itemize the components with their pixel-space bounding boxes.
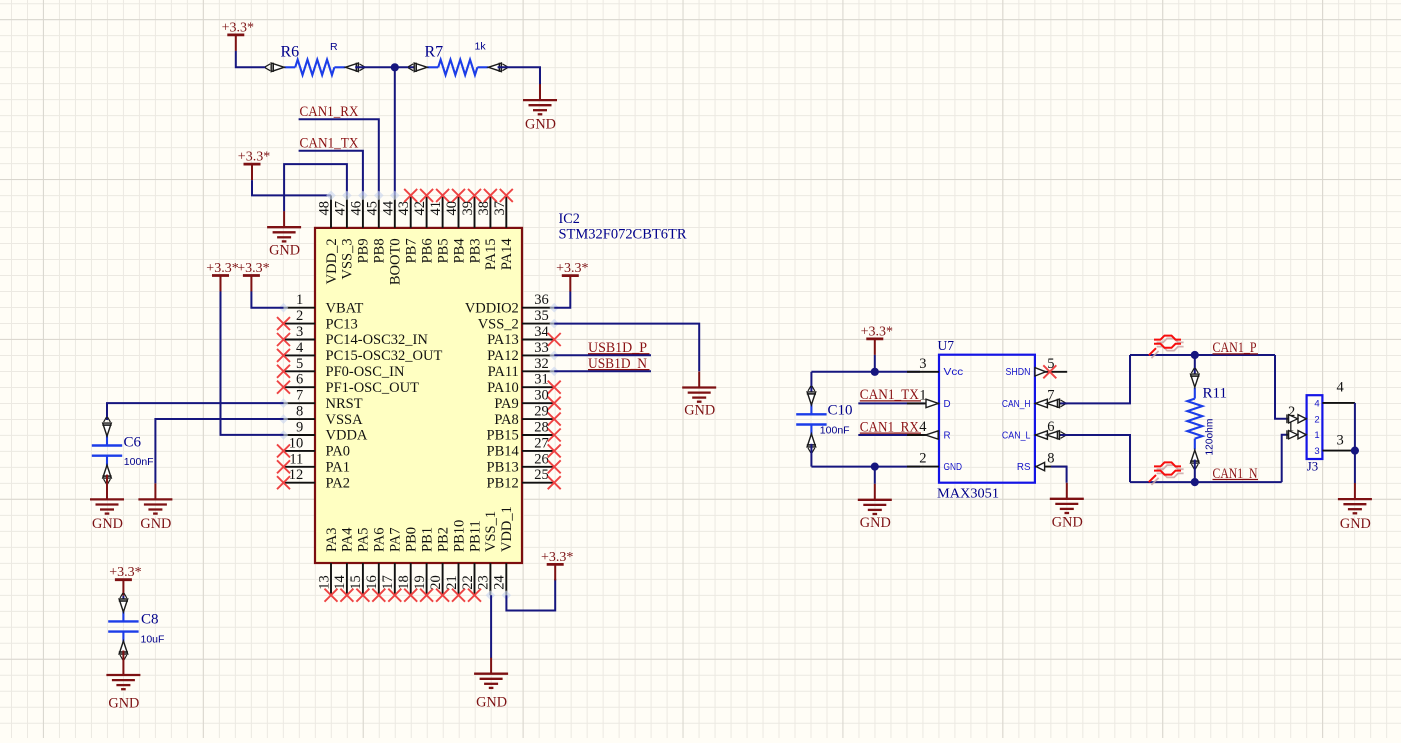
svg-text:PA2: PA2 bbox=[326, 475, 350, 491]
wire CAN1_P rail bbox=[1130, 354, 1275, 356]
IC2 pin 48 VDD_2 bbox=[317, 191, 340, 285]
wire CAN1_RX to pin 45 bbox=[299, 119, 379, 196]
junction CAN1_P at R11 bbox=[1191, 351, 1199, 359]
svg-text:25: 25 bbox=[534, 467, 549, 483]
U7 pin 1 input triangle bbox=[926, 399, 938, 407]
svg-text:SHDN: SHDN bbox=[1006, 367, 1031, 378]
capacitor C8 bbox=[108, 593, 138, 660]
svg-text:11: 11 bbox=[289, 451, 303, 467]
U7 pin 6 CAN_L triangle bbox=[1036, 431, 1048, 439]
svg-text:42: 42 bbox=[412, 201, 428, 216]
IC2 pin 28 PB15 bbox=[487, 420, 561, 444]
IC2 pin 25 PB12 bbox=[487, 467, 561, 491]
wire pin 8 VSSA to GND bbox=[155, 419, 283, 483]
svg-text:+3.3*: +3.3* bbox=[541, 550, 573, 565]
IC2 pin 41 PB5 bbox=[428, 189, 451, 264]
IC2 pin 33 PA12 bbox=[487, 340, 559, 364]
svg-text:21: 21 bbox=[444, 575, 460, 590]
wire USB1D_N stub pin 32 bbox=[554, 370, 651, 372]
svg-text:GND: GND bbox=[684, 403, 715, 419]
svg-text:VSS_3: VSS_3 bbox=[340, 238, 356, 279]
junction J3 pin3 node bbox=[1351, 447, 1359, 455]
svg-text:+3.3*: +3.3* bbox=[222, 20, 254, 35]
svg-text:VDDIO2: VDDIO2 bbox=[465, 300, 519, 316]
svg-text:43: 43 bbox=[396, 201, 412, 216]
svg-text:PA14: PA14 bbox=[499, 238, 515, 270]
svg-text:R: R bbox=[330, 41, 338, 53]
IC2 pin 45 PB8 bbox=[364, 191, 387, 264]
svg-text:VDD_2: VDD_2 bbox=[324, 238, 340, 284]
svg-text:120ohm: 120ohm bbox=[1205, 419, 1216, 456]
wire pin 7 NRST to C6 bbox=[107, 403, 284, 420]
svg-text:6: 6 bbox=[296, 372, 303, 388]
IC2 pin 29 PA8 bbox=[494, 404, 560, 428]
IC2 pin 39 PB3 bbox=[460, 189, 483, 264]
svg-text:PB11: PB11 bbox=[467, 520, 483, 552]
svg-text:PB14: PB14 bbox=[487, 444, 520, 460]
svg-text:32: 32 bbox=[534, 356, 549, 372]
svg-text:PB3: PB3 bbox=[467, 238, 483, 263]
IC2 pin 27 PB14 bbox=[487, 435, 561, 459]
U7 pin 5 SHDN triangle and no-connect bbox=[1035, 368, 1046, 376]
wire C8 to GND bbox=[122, 651, 124, 660]
wire pin 23 VSS_1 to GND bbox=[490, 595, 492, 658]
svg-text:7: 7 bbox=[296, 388, 303, 404]
svg-text:PB12: PB12 bbox=[487, 475, 519, 491]
svg-text:R: R bbox=[944, 430, 951, 441]
J3 pin 4 bbox=[1314, 380, 1355, 410]
svg-text:PA4: PA4 bbox=[340, 527, 356, 552]
svg-text:9: 9 bbox=[296, 420, 303, 436]
wire +3.3V to pin 48 bbox=[252, 180, 331, 195]
U7 pin 8 RS triangle bbox=[1036, 462, 1045, 470]
wire node to R7 bbox=[395, 66, 421, 68]
svg-text:PA1: PA1 bbox=[326, 460, 350, 476]
ground below C8 bbox=[106, 659, 140, 712]
svg-text:PA13: PA13 bbox=[487, 332, 519, 348]
IC2 pin 3 PC14-OSC32_IN bbox=[277, 324, 428, 348]
IC2 pin 6 PF1-OSC_OUT bbox=[277, 372, 419, 396]
IC2 pin 30 PA9 bbox=[494, 388, 560, 412]
wire +3.3V to C8 bbox=[122, 596, 124, 603]
svg-text:VSS_2: VSS_2 bbox=[478, 316, 519, 332]
svg-text:PA3: PA3 bbox=[324, 528, 340, 552]
IC2 pin 14 PA4 bbox=[332, 527, 356, 602]
svg-text:PA12: PA12 bbox=[487, 348, 519, 364]
differential pair marker CAN1_P bbox=[1149, 336, 1184, 358]
svg-text:40: 40 bbox=[444, 201, 460, 216]
svg-text:PB4: PB4 bbox=[451, 238, 467, 264]
svg-text:PA6: PA6 bbox=[372, 528, 388, 552]
svg-text:PA10: PA10 bbox=[487, 380, 519, 396]
svg-text:MAX3051: MAX3051 bbox=[937, 486, 999, 501]
IC2 pin 36 VDDIO2 bbox=[465, 292, 559, 316]
IC2 pin 10 PA0 bbox=[277, 435, 350, 459]
svg-text:29: 29 bbox=[534, 404, 549, 420]
wire +3.3V to pin 1 VBAT bbox=[251, 291, 283, 307]
IC2 pin 37 PA14 bbox=[492, 189, 515, 270]
connector J3 body bbox=[1307, 395, 1323, 459]
IC2 pin 15 PA5 bbox=[348, 528, 372, 602]
svg-text:PC15-OSC32_OUT: PC15-OSC32_OUT bbox=[326, 348, 443, 364]
junction Vcc node bbox=[871, 368, 879, 376]
wire U7 RS to GND bbox=[1051, 467, 1067, 483]
power +3.3V feeding C8 bbox=[109, 565, 141, 596]
wire BOOT0 node down to pin 44 bbox=[394, 67, 396, 196]
power +3.3V feeding VBAT pin 1 bbox=[237, 261, 269, 292]
wire R11 to CAN1_N bbox=[1194, 460, 1196, 483]
wire J3 node to GND bbox=[1354, 451, 1356, 484]
svg-text:R11: R11 bbox=[1203, 386, 1227, 402]
wire CAN1_TX to pin 46 bbox=[299, 151, 363, 197]
wire C6 to GND bbox=[106, 475, 108, 484]
svg-text:38: 38 bbox=[476, 201, 492, 216]
wire CAN1_P to R11 bbox=[1194, 355, 1196, 378]
IC2 pin 40 PB4 bbox=[444, 189, 467, 264]
power +3.3V feeding VDDIO2 pin 36 bbox=[556, 261, 588, 292]
svg-text:47: 47 bbox=[332, 201, 348, 216]
IC2 pin 5 PF0-OSC_IN bbox=[277, 356, 405, 380]
junction CAN1_N at R11 bbox=[1191, 478, 1199, 486]
capacitor C6 bbox=[92, 417, 122, 484]
svg-text:GND: GND bbox=[269, 242, 300, 258]
svg-text:17: 17 bbox=[380, 575, 396, 590]
svg-text:GND: GND bbox=[92, 516, 123, 532]
svg-text:CAN1_RX: CAN1_RX bbox=[300, 104, 359, 120]
IC2 pin 13 PA3 bbox=[316, 528, 340, 602]
wire R6 to node BOOT0 bbox=[355, 66, 395, 68]
svg-text:PB0: PB0 bbox=[404, 527, 420, 552]
wire CAN1_P rail to J3 pin 2 bbox=[1275, 355, 1291, 419]
resistor R11 bbox=[1187, 368, 1202, 469]
svg-text:PB2: PB2 bbox=[435, 527, 451, 552]
IC2 pin 47 VSS_3 bbox=[332, 191, 355, 280]
IC2 pin 23 VSS_1 bbox=[476, 511, 500, 600]
svg-text:2: 2 bbox=[919, 451, 926, 467]
IC2 pin 43 PB7 bbox=[396, 189, 419, 264]
svg-text:8: 8 bbox=[1047, 451, 1054, 467]
IC2 pin 12 PA2 bbox=[277, 467, 350, 491]
U7 pin 6 CAN_L bbox=[1002, 419, 1067, 441]
power +3.3V feeding U7 Vcc bbox=[861, 324, 893, 355]
svg-text:D: D bbox=[944, 399, 951, 410]
svg-text:12: 12 bbox=[289, 467, 304, 483]
wire +3.3V to pin 36 VDDIO2 bbox=[554, 292, 570, 308]
svg-text:+3.3*: +3.3* bbox=[237, 261, 269, 276]
IC2 pin 19 PB1 bbox=[412, 527, 436, 602]
power +3.3V feeding VDD_1 pin 24 bbox=[541, 550, 573, 581]
IC2 pin 9 VDDA bbox=[279, 420, 368, 444]
ground of VSSA bbox=[138, 483, 172, 532]
svg-text:PB5: PB5 bbox=[435, 238, 451, 263]
svg-text:PF1-OSC_OUT: PF1-OSC_OUT bbox=[326, 380, 420, 396]
svg-text:R6: R6 bbox=[281, 43, 300, 60]
svg-text:PB15: PB15 bbox=[487, 428, 519, 444]
svg-text:3: 3 bbox=[919, 356, 926, 372]
svg-text:19: 19 bbox=[412, 575, 428, 590]
svg-text:CAN_L: CAN_L bbox=[1002, 430, 1031, 441]
U7 pin 4 output triangle bbox=[926, 431, 939, 439]
IC2 pin 21 PB10 bbox=[444, 520, 468, 602]
wire GND rail to U7 pin 2 bbox=[811, 466, 920, 468]
svg-text:1: 1 bbox=[296, 292, 303, 308]
U7 pin 7 CAN_H triangle bbox=[1036, 399, 1048, 407]
power +3.3V feeding VDDA pin 9 bbox=[206, 261, 238, 292]
IC2 pin 31 PA10 bbox=[487, 372, 561, 396]
wire pin 35 VSS_2 to GND bbox=[554, 324, 699, 372]
svg-text:J3: J3 bbox=[1307, 460, 1318, 474]
svg-text:41: 41 bbox=[428, 201, 444, 216]
IC2 pin 35 VSS_2 bbox=[478, 308, 559, 332]
svg-text:GND: GND bbox=[944, 462, 963, 473]
IC2 pin 17 PA7 bbox=[380, 528, 404, 602]
svg-text:U7: U7 bbox=[938, 338, 955, 353]
J3 pin 1 bbox=[1287, 419, 1320, 441]
wire CAN1_N rail to J3 pin 1 bbox=[1282, 435, 1291, 482]
svg-text:BOOT0: BOOT0 bbox=[388, 238, 404, 285]
IC2 pin 44 BOOT0 bbox=[380, 191, 403, 286]
wire pin 24 VDD_1 to +3.3V bbox=[506, 579, 555, 611]
svg-text:C10: C10 bbox=[828, 402, 853, 418]
svg-text:15: 15 bbox=[348, 575, 364, 590]
svg-text:100nF: 100nF bbox=[124, 456, 154, 468]
svg-text:2: 2 bbox=[1314, 414, 1319, 425]
IC2 pin 32 PA11 bbox=[488, 356, 559, 380]
svg-text:PA11: PA11 bbox=[488, 364, 519, 380]
svg-text:GND: GND bbox=[140, 516, 171, 532]
IC U-IC2 STM32F072CBT6TR body bbox=[315, 228, 522, 563]
svg-text:4: 4 bbox=[919, 419, 927, 435]
IC2 pin 38 PA15 bbox=[476, 189, 499, 270]
svg-text:GND: GND bbox=[108, 696, 139, 712]
IC2 pin 24 VDD_1 bbox=[492, 506, 515, 600]
svg-text:IC2: IC2 bbox=[559, 211, 580, 227]
U7 pin 2 GND bbox=[907, 451, 962, 473]
wire C10 branch vertical bbox=[810, 372, 812, 395]
ground of J3 bbox=[1338, 483, 1372, 532]
IC2 pin 46 PB9 bbox=[348, 191, 371, 264]
svg-text:STM32F072CBT6TR: STM32F072CBT6TR bbox=[559, 226, 688, 242]
svg-text:100nF: 100nF bbox=[820, 425, 850, 437]
ground of pin 47 VSS_3 bbox=[267, 211, 301, 258]
IC2 pin 11 PA1 bbox=[277, 451, 350, 475]
svg-text:PB6: PB6 bbox=[419, 238, 435, 263]
svg-text:PC13: PC13 bbox=[326, 316, 358, 332]
U7 pin 7 CAN_H bbox=[1002, 387, 1067, 409]
power +3.3V feeding R6 bbox=[222, 20, 254, 51]
svg-text:+3.3*: +3.3* bbox=[861, 324, 893, 339]
svg-text:PA7: PA7 bbox=[388, 528, 404, 552]
svg-text:28: 28 bbox=[534, 420, 549, 436]
IC2 pin 20 PB2 bbox=[428, 527, 452, 602]
IC2 pin 16 PA6 bbox=[364, 528, 388, 602]
svg-text:18: 18 bbox=[396, 575, 412, 590]
svg-text:44: 44 bbox=[380, 200, 396, 215]
svg-text:R7: R7 bbox=[425, 43, 444, 60]
wire USB1D_P stub pin 33 bbox=[554, 354, 651, 356]
svg-text:GND: GND bbox=[525, 117, 556, 133]
svg-text:27: 27 bbox=[534, 435, 549, 451]
IC2 pin 8 VSSA bbox=[279, 404, 363, 428]
svg-text:20: 20 bbox=[428, 575, 444, 590]
svg-text:5: 5 bbox=[296, 356, 303, 372]
svg-text:VDD_1: VDD_1 bbox=[499, 506, 515, 552]
svg-text:14: 14 bbox=[332, 574, 348, 589]
svg-text:PB9: PB9 bbox=[356, 238, 372, 263]
svg-text:RS: RS bbox=[1017, 462, 1031, 473]
svg-text:45: 45 bbox=[364, 201, 380, 216]
svg-text:GND: GND bbox=[1052, 514, 1083, 530]
wire CAN1_N rail bbox=[1130, 481, 1282, 483]
svg-text:8: 8 bbox=[296, 404, 303, 420]
svg-text:PA0: PA0 bbox=[326, 444, 350, 460]
svg-text:1k: 1k bbox=[475, 41, 487, 53]
svg-text:VSS_1: VSS_1 bbox=[483, 511, 499, 552]
svg-text:39: 39 bbox=[460, 201, 476, 216]
wire CAN1_TX to U7 pin 1 D bbox=[858, 402, 924, 404]
svg-text:PC14-OSC32_IN: PC14-OSC32_IN bbox=[326, 332, 429, 348]
wire +3.3V to R6 bbox=[236, 51, 266, 67]
svg-text:22: 22 bbox=[460, 575, 476, 590]
differential pair marker CAN1_N bbox=[1149, 462, 1184, 485]
svg-text:PB10: PB10 bbox=[451, 520, 467, 552]
junction GND rail node bbox=[871, 463, 879, 471]
wire CAN1_RX to U7 pin 4 R bbox=[858, 434, 924, 436]
svg-text:33: 33 bbox=[534, 340, 549, 356]
svg-text:+3.3*: +3.3* bbox=[238, 150, 270, 165]
svg-text:23: 23 bbox=[476, 575, 492, 590]
ground below C6 bbox=[90, 483, 124, 532]
IC2 pin 26 PB13 bbox=[487, 451, 561, 475]
svg-text:PA8: PA8 bbox=[494, 412, 518, 428]
U7 pin 3 Vcc bbox=[907, 356, 963, 378]
svg-text:NRST: NRST bbox=[326, 396, 363, 412]
svg-text:PB8: PB8 bbox=[372, 238, 388, 263]
svg-text:+3.3*: +3.3* bbox=[556, 261, 588, 276]
svg-text:3: 3 bbox=[296, 324, 303, 340]
wire GND node down bbox=[874, 467, 876, 484]
svg-text:37: 37 bbox=[492, 201, 508, 216]
wire Vcc rail to U7 pin 3 bbox=[811, 371, 920, 373]
ground of RS bbox=[1050, 483, 1084, 531]
U7 pin 1 D bbox=[907, 387, 951, 409]
svg-text:48: 48 bbox=[317, 201, 333, 216]
IC2 pin 42 PB6 bbox=[412, 189, 435, 264]
svg-text:30: 30 bbox=[534, 388, 549, 404]
ground below R7 bbox=[523, 84, 557, 133]
svg-text:46: 46 bbox=[348, 201, 364, 216]
svg-text:4: 4 bbox=[1337, 380, 1345, 396]
wire CAN_H to CAN1_P rail bbox=[1060, 355, 1130, 403]
capacitor C10 bbox=[796, 386, 826, 453]
svg-text:10uF: 10uF bbox=[141, 633, 165, 645]
svg-text:Vcc: Vcc bbox=[944, 367, 964, 378]
svg-text:24: 24 bbox=[492, 574, 508, 589]
svg-text:VBAT: VBAT bbox=[326, 300, 364, 316]
wire R7 to GND bbox=[498, 67, 540, 84]
wire +3.3V to pin 9 VDDA bbox=[221, 291, 284, 435]
ground of VSS_1 bbox=[474, 658, 508, 711]
svg-text:VDDA: VDDA bbox=[326, 428, 368, 444]
svg-text:PB7: PB7 bbox=[404, 238, 420, 263]
IC2 pin 4 PC15-OSC32_OUT bbox=[277, 340, 442, 364]
IC2 pin 34 PA13 bbox=[487, 324, 561, 348]
svg-text:PA9: PA9 bbox=[494, 396, 518, 412]
svg-text:4: 4 bbox=[296, 340, 304, 356]
svg-text:34: 34 bbox=[534, 324, 549, 340]
IC2 pin 7 NRST bbox=[279, 388, 363, 412]
svg-text:4: 4 bbox=[1314, 398, 1319, 409]
J3 pin 2 bbox=[1288, 404, 1320, 426]
U7 pin 4 R bbox=[907, 419, 951, 441]
svg-text:VSSA: VSSA bbox=[326, 412, 364, 428]
svg-text:+3.3*: +3.3* bbox=[109, 565, 141, 580]
svg-text:PA15: PA15 bbox=[483, 238, 499, 270]
svg-text:GND: GND bbox=[476, 694, 507, 710]
wire +3.3V to Vcc node bbox=[874, 355, 876, 372]
J3 pin 3 bbox=[1314, 432, 1355, 457]
svg-text:3: 3 bbox=[1314, 446, 1319, 457]
svg-text:PF0-OSC_IN: PF0-OSC_IN bbox=[326, 364, 405, 380]
IC2 pin 2 PC13 bbox=[277, 308, 358, 332]
junction BOOT0 node bbox=[391, 63, 399, 71]
wire J3 pin 4 to pin 3 node bbox=[1354, 403, 1356, 451]
svg-text:PA5: PA5 bbox=[356, 528, 372, 552]
IC2 pin 1 VBAT bbox=[279, 292, 364, 316]
svg-text:10: 10 bbox=[289, 435, 304, 451]
svg-text:36: 36 bbox=[534, 292, 549, 308]
svg-text:16: 16 bbox=[364, 575, 380, 590]
svg-text:C8: C8 bbox=[141, 611, 159, 627]
wire pin 47 VSS_3 to GND bbox=[284, 164, 347, 211]
svg-text:3: 3 bbox=[1337, 432, 1344, 448]
IC2 pin 22 PB11 bbox=[460, 520, 484, 601]
svg-text:31: 31 bbox=[534, 372, 549, 388]
svg-text:GND: GND bbox=[1340, 516, 1371, 532]
svg-text:35: 35 bbox=[534, 308, 549, 324]
resistor R7 bbox=[408, 60, 507, 75]
svg-text:GND: GND bbox=[860, 515, 891, 531]
power +3.3V feeding VDD_2 pin 48 bbox=[238, 150, 270, 181]
svg-text:CAN_H: CAN_H bbox=[1002, 399, 1031, 410]
wire CAN_L to CAN1_N rail bbox=[1060, 435, 1130, 482]
U7 pin 8 RS bbox=[1017, 451, 1067, 473]
U7 pin 5 SHDN bbox=[1006, 356, 1068, 378]
svg-text:13: 13 bbox=[316, 575, 332, 590]
svg-text:1: 1 bbox=[1314, 430, 1319, 441]
IC U7 MAX3051 body bbox=[939, 355, 1035, 483]
svg-text:CAN1_TX: CAN1_TX bbox=[300, 136, 359, 152]
ground below C10 bbox=[858, 484, 892, 531]
svg-text:PB13: PB13 bbox=[487, 460, 519, 476]
IC2 pin 18 PB0 bbox=[396, 527, 420, 602]
svg-text:PB1: PB1 bbox=[419, 527, 435, 552]
ground of VSS_2 bbox=[682, 372, 716, 419]
svg-text:2: 2 bbox=[296, 308, 303, 324]
resistor R6 bbox=[265, 60, 364, 75]
wire C10 to GND rail bbox=[810, 444, 812, 467]
svg-text:C6: C6 bbox=[124, 434, 142, 450]
svg-text:26: 26 bbox=[534, 451, 549, 467]
svg-text:+3.3*: +3.3* bbox=[206, 261, 238, 276]
